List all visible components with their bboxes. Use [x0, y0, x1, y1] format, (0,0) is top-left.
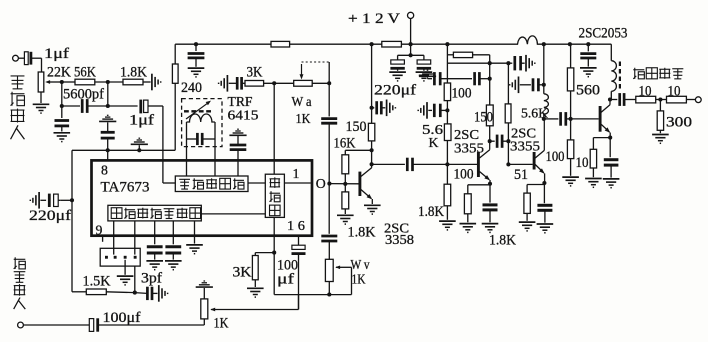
svg-text:300: 300 — [666, 114, 692, 130]
wire osc pins to connector — [114, 221, 135, 255]
capacitor bus bypass 196 — [188, 42, 205, 67]
label 100uF pin16 — [277, 258, 298, 288]
capacitor C below 22K junction — [55, 106, 70, 132]
capacitor 78 right — [475, 72, 492, 85]
ground emitter2 C — [537, 224, 554, 233]
ground under divider — [337, 215, 354, 224]
ground above pin8 cap — [99, 115, 116, 121]
wire 220uF branch — [398, 44, 424, 61]
svg-text:220μf: 220μf — [374, 83, 416, 99]
resistor 10 out A — [636, 84, 656, 103]
wire 3K junction to mixer pin — [273, 83, 275, 174]
resistor 560 — [567, 42, 600, 119]
label 5.6K bias — [422, 122, 443, 150]
svg-text:100: 100 — [546, 149, 565, 165]
svg-text:+ 1 2 V: + 1 2 V — [348, 11, 401, 27]
wire 150 bottom — [370, 141, 374, 168]
wire internal mixer links — [201, 183, 310, 236]
inductor core dashed 2053 — [619, 62, 621, 91]
resistor chain column 447 — [445, 42, 449, 83]
terminal +12V — [348, 11, 414, 46]
svg-text:56K: 56K — [74, 65, 96, 81]
svg-text:O: O — [316, 176, 326, 191]
label Wv 1K — [351, 257, 370, 287]
ground under 220uF — [389, 72, 406, 81]
resistor bus R-left — [271, 41, 290, 47]
ground under C — [54, 133, 71, 142]
potentiometer Wv 1K — [325, 259, 351, 294]
resistor bus R-right — [382, 41, 402, 47]
label video input — [14, 257, 26, 309]
capacitor pin8 bypass — [101, 122, 115, 161]
svg-text:240: 240 — [181, 80, 202, 96]
svg-text:TA7673: TA7673 — [101, 180, 150, 196]
svg-text:150: 150 — [346, 119, 367, 135]
capacitor base 2053 — [544, 112, 599, 126]
ground under 3K mixer — [247, 288, 264, 297]
ground under 10 — [562, 177, 579, 186]
wire connector dot3 to ground — [117, 260, 134, 285]
label audio input — [11, 76, 25, 139]
resistor 1.8K base1 — [418, 164, 451, 220]
wire O row base — [327, 182, 360, 186]
svg-text:μf: μf — [277, 272, 294, 288]
label pin 9 — [96, 223, 103, 238]
label 2SC2053 — [579, 26, 628, 42]
resistor 100 emitter1 — [454, 166, 491, 222]
inductor collector2 — [542, 94, 549, 121]
capacitor coupling 3358-3355 — [407, 158, 478, 171]
resistor 150 first — [346, 119, 375, 141]
transformer TRF6415 dashed box — [182, 99, 222, 147]
ground 1.8K base1 — [439, 221, 456, 230]
wire 63 rail — [447, 61, 510, 65]
wire 100 to 5.6K — [445, 101, 449, 124]
label 100 collector2 — [546, 149, 565, 165]
wire left column to 1.5K — [72, 200, 86, 291]
wire 56K to 1.8K — [95, 80, 123, 84]
resistor 300 — [657, 100, 692, 134]
capacitor 1uF to pin vsound — [129, 100, 163, 129]
svg-text:1.8K: 1.8K — [489, 233, 517, 249]
wire out mid — [656, 97, 667, 101]
svg-text:1.8K: 1.8K — [348, 225, 377, 241]
ground 2053 emitter R — [585, 179, 602, 188]
label pin 1 — [293, 166, 300, 181]
transistor 2SC2053 — [600, 97, 612, 139]
svg-text:1μf: 1μf — [129, 113, 154, 129]
resistor 10 emitter 2053 — [590, 138, 610, 178]
ground osc pin C — [186, 221, 203, 254]
resistor 240 — [172, 44, 202, 150]
label pin 16 — [287, 218, 305, 233]
wire mixer out column — [272, 236, 276, 295]
ground under 300 — [652, 135, 669, 144]
label TA7673 — [101, 180, 150, 196]
capacitor TRF6415 tank — [187, 133, 216, 145]
ground under 196 cap — [188, 68, 205, 77]
wire +12V bus — [175, 36, 611, 44]
potentiometer 22K — [38, 65, 71, 93]
svg-text:10: 10 — [668, 84, 681, 100]
wire 5600pf to 1uF — [87, 82, 137, 108]
svg-text:3K: 3K — [233, 265, 253, 281]
ground under 3358 emitter — [364, 205, 381, 214]
ground above 238 cap — [229, 129, 246, 135]
capacitor 100uF video — [89, 310, 204, 332]
cap-gnd at 110 — [418, 102, 447, 119]
ground 51 — [519, 222, 536, 231]
label 1.8K divider — [348, 225, 377, 241]
capacitor 2053 emitter — [604, 138, 619, 178]
wire 5600pf row — [60, 82, 80, 108]
label pin 8 — [101, 163, 108, 178]
capacitor bus bypass 588 — [580, 42, 597, 77]
svg-text:1K: 1K — [296, 111, 311, 126]
wire audio row — [60, 80, 75, 84]
terminal audio input — [13, 55, 25, 61]
resistor 3K — [245, 64, 264, 86]
svg-text:2SC2053: 2SC2053 — [579, 26, 628, 42]
ground emitter1 R — [460, 224, 477, 233]
capacitor collector coupling — [490, 135, 511, 148]
resistor 5.6K bias — [444, 124, 451, 164]
svg-text:3K: 3K — [247, 64, 263, 80]
svg-text:1.5K: 1.5K — [83, 273, 112, 289]
TRF6415 adjust arrow — [186, 99, 212, 119]
label 220uF — [374, 83, 416, 99]
terminal RF out — [686, 97, 701, 103]
svg-text:1.8K: 1.8K — [120, 65, 147, 81]
resistor 16K — [334, 136, 372, 184]
wire 78 bypass row — [419, 70, 472, 85]
resistor 51 emitter2 — [514, 167, 544, 221]
svg-text:8: 8 — [101, 163, 108, 178]
capacitor pin bypass 238 — [230, 136, 247, 176]
ground right of 3pf — [159, 285, 168, 302]
wire 220uF video branch — [61, 198, 74, 202]
svg-text:1K: 1K — [214, 316, 230, 332]
ground 2053 emitter C — [603, 179, 620, 188]
capacitor on 329 column lower — [321, 236, 337, 259]
resistor 100 bias — [444, 83, 471, 101]
ground on W1 — [131, 138, 148, 152]
label 2SC3355 first — [454, 128, 484, 157]
capacitor 1uF input — [24, 46, 69, 72]
svg-text:10: 10 — [576, 155, 589, 171]
ground emitter1 C — [482, 224, 499, 233]
node O — [316, 176, 326, 191]
resistor 3K mixer — [233, 253, 275, 287]
svg-text:3pf: 3pf — [141, 271, 162, 287]
terminal video input — [18, 322, 90, 328]
svg-text:100: 100 — [454, 166, 474, 182]
label 2SC3358 — [384, 222, 414, 249]
label 220uF video — [29, 208, 71, 224]
svg-text:51: 51 — [514, 167, 528, 183]
label Wa 1K — [292, 94, 312, 126]
label 1.8K bottom — [489, 233, 517, 249]
capacitor 100uF pin16 — [292, 236, 306, 310]
wire 1uF into IC pin — [162, 106, 164, 160]
wire base row stage2 — [508, 163, 532, 165]
svg-text:1: 1 — [293, 166, 300, 181]
svg-text:220μf: 220μf — [29, 208, 71, 224]
wire internal sound mod left — [163, 160, 175, 183]
IC TA7673 box — [92, 160, 313, 235]
svg-text:1 6: 1 6 — [287, 218, 305, 233]
svg-text:10: 10 — [639, 84, 652, 100]
label RF out — [633, 68, 683, 79]
wire Wa right to column — [312, 62, 331, 85]
svg-text:1μf: 1μf — [44, 46, 69, 62]
svg-text:100μf: 100μf — [103, 310, 141, 326]
svg-text:16K: 16K — [334, 136, 356, 152]
block mixer — [265, 174, 284, 217]
ground right of cap — [387, 99, 396, 116]
resistor 5.6K second — [505, 63, 511, 166]
ground-cap left of 3K — [219, 75, 245, 92]
label TRF 6415 — [228, 94, 259, 123]
TRF6415 core dashed — [184, 110, 214, 112]
wire 3K to Wa — [264, 81, 294, 85]
cap-gnd on 63 rail — [508, 55, 534, 72]
svg-text:K: K — [429, 135, 439, 150]
wire wiper 1K row — [211, 295, 299, 310]
svg-text:1K: 1K — [352, 272, 366, 287]
resistor 1.5K — [83, 273, 112, 294]
resistor 10 emitterbias — [567, 119, 588, 176]
ground right of 1.8K — [143, 74, 161, 91]
wire TRF rails to IC — [187, 122, 216, 176]
wire collector2 column — [542, 42, 546, 94]
potentiometer 1K video — [201, 288, 215, 325]
svg-text:1.8K: 1.8K — [418, 204, 445, 220]
svg-text:22K: 22K — [47, 65, 71, 81]
wire base row 3358-3355 — [372, 163, 405, 165]
label 1K video — [214, 316, 230, 332]
svg-text:5600pf: 5600pf — [63, 87, 104, 103]
capacitor osc pin A — [146, 221, 163, 270]
svg-text:560: 560 — [576, 82, 600, 98]
ground under right cap — [416, 72, 433, 81]
resistor 10 out B — [667, 84, 687, 103]
wire W1 decoup row — [72, 150, 175, 200]
capacitor bypass right of 220uF — [417, 60, 431, 71]
potentiometer Wa 1K — [294, 64, 313, 86]
capacitor 3pf — [135, 271, 162, 301]
resistor 1.8K divider — [342, 182, 349, 214]
wire 1.5K to 3pf — [106, 266, 137, 295]
ground left of 220uF video — [30, 192, 39, 209]
wire Wa wiper dotted — [302, 61, 330, 63]
block video carrier osc — [108, 205, 201, 221]
transistor 2SC3355 second — [534, 119, 546, 185]
inductor variable collector 2053 — [611, 44, 616, 99]
inductor TRF6415 coil — [187, 114, 215, 122]
svg-text:3355: 3355 — [510, 140, 540, 155]
capacitor 220uF video — [40, 194, 60, 207]
wire 150 column top — [370, 42, 374, 123]
svg-text:3358: 3358 — [385, 233, 414, 248]
resistor 1.8K audio — [120, 65, 147, 85]
capacitor on 329 column upper — [321, 83, 337, 234]
transistor 2SC3358 — [360, 168, 374, 204]
wire Wv bottom row — [274, 292, 351, 296]
resistor 150 collector — [474, 63, 493, 143]
capacitor emitter1 — [483, 184, 498, 223]
svg-text:9: 9 — [96, 223, 103, 238]
transistor 2SC3355 first — [478, 141, 492, 186]
ground above 1K pot — [196, 281, 213, 287]
svg-text:W v: W v — [351, 257, 370, 272]
capacitor emitter2 — [537, 183, 552, 223]
block sound modulator — [175, 176, 248, 192]
capacitor osc pin B — [165, 221, 182, 270]
connector block 4-dot — [100, 248, 140, 266]
capacitor 5600pf — [63, 87, 104, 113]
svg-text:6415: 6415 — [228, 107, 259, 122]
svg-text:150: 150 — [474, 110, 493, 126]
capacitor 220uF — [390, 60, 404, 71]
capacitor output coupling — [610, 93, 636, 106]
resistor series top — [447, 52, 489, 63]
label 5.6K second — [521, 105, 548, 120]
wire pin9 stub — [102, 236, 104, 242]
label 2SC3355 second — [510, 126, 540, 154]
resistor 56K — [74, 65, 96, 85]
svg-text:100: 100 — [452, 85, 472, 101]
capacitor bypass at 150 top — [372, 101, 386, 114]
cap-gnd at 544 — [510, 77, 544, 94]
ground under 22K — [33, 92, 50, 113]
svg-text:W a: W a — [292, 94, 312, 109]
